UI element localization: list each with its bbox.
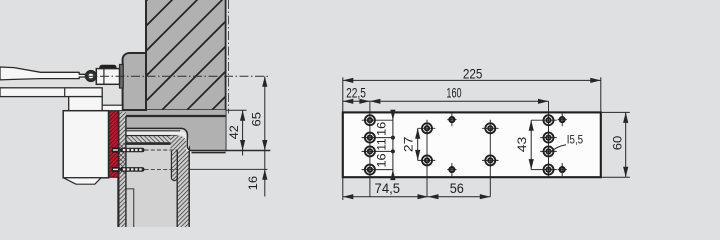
svg-text:I5,5: I5,5 xyxy=(567,134,583,146)
svg-text:160: 160 xyxy=(446,85,461,100)
svg-text:65: 65 xyxy=(250,112,264,127)
svg-text:60: 60 xyxy=(610,136,624,151)
svg-text:74,5: 74,5 xyxy=(375,181,401,196)
svg-text:43: 43 xyxy=(515,137,529,153)
svg-text:22,5: 22,5 xyxy=(346,85,366,100)
svg-text:225: 225 xyxy=(463,66,483,81)
svg-text:16: 16 xyxy=(375,153,389,167)
svg-text:42: 42 xyxy=(227,125,241,139)
svg-text:11: 11 xyxy=(375,138,389,150)
svg-text:56: 56 xyxy=(450,181,464,196)
svg-text:16: 16 xyxy=(246,176,260,191)
svg-text:27: 27 xyxy=(401,136,415,152)
svg-text:16: 16 xyxy=(375,122,389,136)
